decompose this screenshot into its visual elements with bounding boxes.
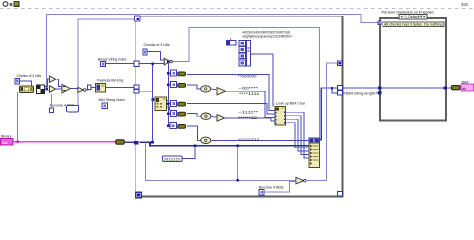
triangle gate 1 — [217, 88, 225, 95]
constant: become 4 8bits small box — [50, 108, 54, 113]
wire W1 lavender from adder up across to case selector — [47, 14, 379, 88]
svg-text:******22: ******22 — [238, 116, 257, 120]
wire oval1 to tri1 — [211, 89, 217, 90]
svg-text:Become 4 8bits: Become 4 8bits — [259, 185, 284, 189]
row C: box + capsule — [167, 100, 185, 106]
row A: box + capsule — [167, 70, 185, 76]
node: split string (yellow icon mid-left) — [155, 97, 167, 111]
wire row D into oval2 — [187, 114, 201, 117]
svg-text:ab: ab — [462, 86, 467, 91]
svg-text:Chunks of 3 U8s: Chunks of 3 U8s — [17, 74, 42, 78]
wire: Binary pink string wire — [13, 141, 116, 143]
oval gate 2 — [201, 113, 211, 119]
toolbar icon: font ring circle — [3, 2, 8, 7]
wire: from chunk const to string subset — [20, 81, 32, 86]
terminal: B64 string indicator — [461, 84, 474, 91]
wire tri2 to lookup — [225, 118, 275, 121]
frame tunnel left edge for byte array — [134, 141, 139, 145]
wire preallocate to frame tunnel — [106, 86, 135, 88]
thick byte-array bus — [139, 142, 309, 145]
junction and bus down feeding rows — [167, 60, 170, 63]
svg-text:Put term characters on if need: Put term characters on if needed — [382, 10, 434, 14]
wire gate out up to right tunnel — [306, 63, 337, 180]
triangle gate 2 — [217, 115, 225, 122]
svg-text:abc: abc — [2, 141, 8, 145]
gate: become-4-8bits triangle bottom — [296, 177, 306, 184]
node: Preallocate B64 string icon — [96, 83, 106, 91]
wire: B64 string out of frame through case — [321, 87, 444, 89]
constant: chunks of 3 U8s inner — [143, 49, 147, 55]
constant: B64 string index — [102, 103, 107, 108]
wire into split node from index bus — [153, 98, 156, 100]
wires gates A,B to C — [56, 79, 62, 86]
terminal: Binary string control — [1, 134, 14, 145]
gate: quotient (inner) — [164, 58, 172, 65]
svg-text:B64 string length: B64 string length — [346, 91, 375, 95]
wires from decimate to gates — [44, 79, 49, 87]
wire box to gate — [264, 182, 296, 193]
toolbar icon: olive square button — [14, 1, 19, 6]
node: Look up B64 Char — [275, 107, 286, 125]
svg-text:0, Default: 0, Default — [405, 15, 420, 19]
wires lookup outputs nested down to concat left inputs — [286, 112, 309, 158]
node: index array cluster — [226, 40, 250, 65]
case comment: All chunks had 3 bytes. Do nothing — [383, 22, 444, 27]
wire: pink riser to String Subset — [17, 92, 19, 142]
wire row C to lookup — [187, 104, 275, 115]
wire concat output up to frame tunnel — [320, 88, 322, 140]
frame tunnel bottom-left — [136, 192, 141, 198]
gate B multiply — [49, 86, 55, 92]
constant: binary string index — [101, 61, 106, 66]
wire index cluster down into lookup top — [272, 54, 274, 107]
junction on B64 wire — [331, 87, 333, 89]
wire D to preallocate — [86, 87, 97, 90]
wire oval3 to concat node — [211, 139, 309, 141]
wire tri1 out to lookup — [225, 91, 275, 117]
wire: const down to gate — [147, 52, 164, 60]
label: B64 string length — [346, 91, 376, 96]
svg-text:262: 262 — [461, 2, 469, 7]
node: String Subset — [20, 86, 34, 92]
wire: byte array into frame tunnel — [124, 141, 134, 143]
frame tunnel top-left — [134, 16, 139, 21]
wire digits to bus — [182, 146, 195, 159]
wire W3: gate out right, up, across, down to concat node — [173, 27, 320, 138]
svg-text:--00****: --00**** — [238, 87, 259, 91]
svg-text:Look up B64 Char: Look up B64 Char — [276, 101, 306, 105]
small box on wire — [88, 85, 91, 89]
wire row B into oval1 — [187, 85, 201, 89]
wire: BSI inside frame — [139, 63, 164, 65]
svg-text:Chunks of 3 U8s: Chunks of 3 U8s — [144, 43, 170, 47]
oval gate 1 — [201, 86, 211, 92]
wire oval2 to tri2 — [211, 116, 217, 117]
gate D multiply with coercion — [78, 87, 86, 92]
junction pink — [16, 141, 19, 144]
junction for W1 — [45, 87, 48, 90]
wire C to D — [70, 88, 77, 90]
case selector tunnel left edge — [378, 21, 381, 25]
svg-text:26111123: 26111123 — [164, 157, 180, 161]
wire to frame tunnel — [106, 63, 134, 65]
svg-text:**000000: **000000 — [238, 75, 257, 79]
case selector: 0, Default — [399, 14, 427, 19]
svg-text:All chunks had 3 bytes. Do not: All chunks had 3 bytes. Do nothing — [384, 23, 443, 27]
frame tunnel bottom right corner — [337, 191, 342, 196]
frame tunnel right edge upper (lavender out) — [337, 61, 342, 66]
constant: become 4 8bits bottom box — [259, 190, 264, 195]
oval gate 3 — [201, 137, 211, 143]
constant: digits box — [162, 156, 182, 162]
frame tunnel left edge (index) — [134, 61, 139, 66]
case tunnel right edge — [444, 86, 447, 89]
constant: chunks of 3 U8s box — [15, 78, 20, 84]
frame tunnel left edge (preallocate) — [134, 85, 139, 89]
row E: box + capsule — [167, 123, 185, 129]
svg-text:**222222: **222222 — [238, 138, 259, 142]
case tunnels left edge — [378, 86, 381, 89]
case structure — [380, 18, 446, 121]
pink stub from constant into node — [230, 38, 232, 40]
wires split node to row bus — [167, 100, 169, 102]
dashed top border line — [0, 8, 474, 10]
row B: box + capsule — [167, 82, 185, 88]
wire: B64 string length stub — [332, 88, 379, 93]
capsule: String to Byte Array — [116, 140, 125, 144]
svg-text:B64 String Index: B64 String Index — [99, 98, 126, 102]
svg-text:Binary: Binary — [1, 134, 12, 138]
lavender bottom path — [146, 143, 296, 181]
wire: long vertical index bus — [152, 64, 154, 143]
row D: box + capsule — [167, 110, 185, 116]
wire row A to lookup — [187, 74, 275, 110]
node: concatenate strings — [309, 138, 320, 168]
wire row E into oval3 — [187, 126, 201, 140]
svg-text:****1111: ****1111 — [239, 92, 259, 96]
wire from index node right — [250, 53, 273, 55]
toolbar icon: align glyph — [10, 3, 13, 6]
svg-text:defghijklmnopqrstuvwxyz0123456: defghijklmnopqrstuvwxyz0123456789+/ — [243, 35, 293, 39]
wire W2 lavender from constant box up to frame top-left tunnel — [78, 19, 135, 106]
svg-text:Preallocate B64 string: Preallocate B64 string — [97, 79, 123, 83]
gate C add — [62, 84, 70, 93]
svg-text:--1111**: --1111** — [238, 111, 259, 115]
gate A multiply — [49, 76, 55, 82]
frame: main gray structure — [136, 16, 344, 198]
constant: box under wire W2 — [67, 106, 79, 112]
wire riser from small box — [50, 94, 52, 108]
byte array to string capsule at output — [451, 86, 460, 90]
frame tunnels right edge — [337, 86, 342, 90]
node: Decimate 1D Array (checkered) — [37, 85, 45, 94]
